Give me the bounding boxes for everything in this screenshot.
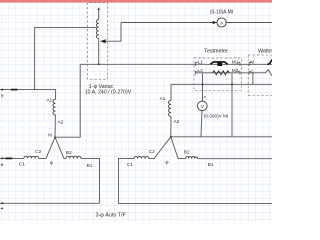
wire unit1 C row [0,157,46,159]
transformer2 coil C1-C2 [134,156,149,158]
svg-text:(0-10)A MI: (0-10)A MI [210,10,233,16]
wire unit2 C1 riser [119,159,135,204]
svg-text:L2: L2 [198,68,204,74]
wire wattmeter C stub [252,73,254,85]
svg-text:C2: C2 [149,149,155,155]
svg-text:10 A, 240 / (0-270)V: 10 A, 240 / (0-270)V [85,90,132,96]
svg-text:3-φ Auto T/F: 3-φ Auto T/F [96,213,127,219]
testmeter dashed enclosure [194,58,241,90]
terminal C wattmeter [249,71,251,74]
wire rail2 bottom [119,203,273,205]
wire wattmeter row2 hump [253,70,272,76]
wattmeter dashed enclosure [248,55,272,96]
variac winding coil [96,20,98,39]
wire wiper output [105,23,121,42]
svg-text:B1: B1 [208,162,214,168]
variac top terminal arrow [98,7,100,9]
terminal M1 [238,63,240,66]
svg-text:Wattmeter: Wattmeter [258,49,272,55]
wire unit2 Y right diagonal [171,137,186,159]
node N1 [54,136,56,138]
svg-text:M: M [250,59,254,65]
wattmeter current coil [267,60,272,65]
fuse bold segment phase C row [5,157,12,159]
wire unit2 C row to node [149,137,171,159]
wire unit2 node lead [170,117,172,137]
svg-text:C2: C2 [35,149,41,155]
svg-text:Testmeter: Testmeter [204,49,228,55]
wire variac winding lead [98,9,100,64]
wire node-N1 riser [55,64,80,137]
ammeter arrow [213,21,217,24]
junction node variac-bus1 [98,63,100,65]
wire resistor drop [231,73,233,137]
wire unit1 A2 lead [54,115,56,137]
wire bus1 testmeter row [80,63,272,65]
junction node L2-bus2 [202,83,204,85]
terminal L2 [195,71,197,74]
phase R entry arrow [0,89,3,91]
svg-text:A2: A2 [174,119,180,125]
svg-text:C1: C1 [127,162,133,168]
wire top bus to ammeter [121,22,217,24]
ammeter A1 circle [217,18,226,27]
variac wiper arrow [100,39,105,43]
svg-text:C1: C1 [19,162,25,168]
wire unit1 Y diagonals [46,137,64,158]
svg-text:R: R [1,93,4,98]
svg-text:φ: φ [50,160,53,165]
svg-text:A1: A1 [160,96,166,102]
svg-text:(0-300)V MI: (0-300)V MI [204,113,228,118]
svg-text:M2: M2 [232,68,239,74]
terminal L1 [195,63,197,66]
wire L2 drop to voltmeter [202,73,204,101]
svg-text:B2: B2 [66,150,72,156]
svg-text:M1: M1 [232,59,239,65]
svg-text:C: C [250,69,254,75]
red top bar [0,0,272,3]
wire riser to variac [35,28,97,90]
testmeter resistor [213,71,230,75]
transformer1 coil C2-C1 [24,156,39,158]
wire voltmeter lower lead [201,111,202,137]
svg-text:L1: L1 [198,60,204,66]
wire unit2 A1 riser [170,84,172,100]
terminal M wattmeter [249,63,251,66]
voltmeter polarity dash [204,96,206,98]
wire unit2 node horizontal [171,136,272,138]
transformer2 coil A1-A2 [169,100,172,116]
wire unit1 B row [64,158,100,203]
svg-text:A1: A1 [46,98,52,104]
svg-text:N: N [48,132,52,138]
svg-text:φ: φ [166,159,169,164]
testmeter current coil [210,62,227,65]
junction node resistor-bus2 [231,83,233,85]
transformer1 coil B2-B1 [66,156,81,158]
wire bus2 lower [171,83,272,85]
svg-text:A2: A2 [58,119,64,125]
wire rail1 bottom [0,202,99,204]
voltmeter V1 circle [198,101,208,111]
terminal M2 [238,71,240,74]
wire unit2 B row to right edge [198,158,272,160]
transformer1 coil A1-A2 [53,99,56,115]
svg-text:B2: B2 [184,150,190,156]
fuse bold segment phase R [11,89,18,91]
phase C entry arrow [0,157,3,159]
phase B entry arrow [0,202,3,204]
wire phase-R input top-left [0,90,56,100]
node N2 [170,136,172,138]
variac dashed enclosure [88,3,108,80]
svg-text:B1: B1 [87,163,93,169]
wire testmeter row2 [195,72,253,74]
wire ammeter to right edge [226,22,272,24]
transformer2 coil B2-B1 [186,156,198,158]
